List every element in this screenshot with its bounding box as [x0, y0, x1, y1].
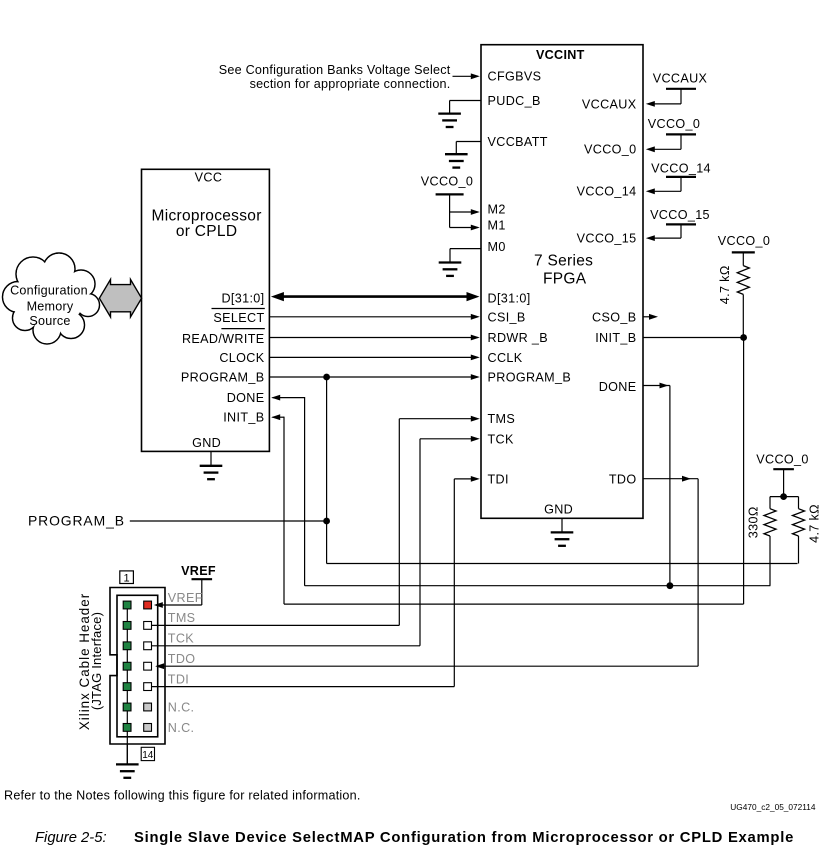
svg-text:TMS: TMS: [488, 412, 516, 426]
JTAG pin labels: [168, 591, 203, 735]
ground G-m0: [439, 263, 462, 276]
wire PROGRAM_B external: [130, 377, 327, 564]
svg-text:1: 1: [124, 572, 130, 584]
wire PROGRAM_B micro to FPGA: [269, 376, 477, 378]
svg-text:See Configuration Banks Voltag: See Configuration Banks Voltage Select: [219, 63, 451, 77]
svg-text:TDI: TDI: [168, 672, 189, 686]
svg-text:CFGBVS: CFGBVS: [488, 70, 542, 84]
FPGA left pin labels: [488, 70, 572, 487]
annotation: See Configuration Banks Voltage Select: [219, 63, 451, 91]
junction PROGRAM_B external: [323, 518, 330, 525]
svg-text:N.C.: N.C.: [168, 721, 195, 735]
overline WRITE: [221, 328, 264, 330]
svg-text:Source: Source: [29, 314, 70, 328]
svg-text:GND: GND: [544, 503, 573, 517]
svg-text:DONE: DONE: [599, 380, 637, 394]
svg-text:GND: GND: [192, 436, 221, 450]
svg-text:INIT_B: INIT_B: [595, 331, 636, 345]
svg-text:section for appropriate connec: section for appropriate connection.: [250, 77, 451, 91]
ground G-jtag: [116, 764, 139, 777]
svg-text:VCCAUX: VCCAUX: [653, 71, 708, 85]
wire PUDC_B: [450, 100, 481, 102]
svg-text:READ/WRITE: READ/WRITE: [182, 332, 265, 346]
svg-text:VCCO_0: VCCO_0: [648, 117, 701, 131]
power VCCO_14 right: [646, 161, 711, 194]
svg-text:Microprocessor: Microprocessor: [152, 207, 262, 224]
svg-text:M0: M0: [488, 240, 506, 254]
JTAG pin2 VREF (red): [144, 601, 152, 609]
junction VCCO_0 split: [780, 493, 787, 500]
wire CSO_B: [643, 316, 650, 318]
overline SELECT: [212, 308, 265, 310]
svg-text:or CPLD: or CPLD: [176, 223, 238, 240]
svg-text:PROGRAM_B: PROGRAM_B: [181, 370, 265, 384]
svg-text:VCCO_0: VCCO_0: [756, 453, 809, 467]
resistor R3 4.7k PROGRAM_B pullup: [793, 509, 805, 536]
wire PROGRAM_B pullup run: [327, 563, 798, 565]
svg-text:CLOCK: CLOCK: [219, 351, 264, 365]
svg-text:(JTAG Interface): (JTAG Interface): [89, 612, 104, 710]
svg-text:N.C.: N.C.: [168, 700, 195, 714]
svg-text:Memory: Memory: [27, 300, 74, 314]
svg-text:D[31:0]: D[31:0]: [221, 291, 264, 305]
junction PROGRAM_B: [323, 374, 330, 381]
resistor R2 330 DONE pullup: [764, 509, 776, 536]
cloud: Configuration Memory Source: [3, 253, 100, 344]
wire CLOCK to CCLK: [269, 356, 477, 358]
svg-text:TDO: TDO: [168, 652, 196, 666]
svg-text:VCCO_15: VCCO_15: [650, 208, 710, 222]
power VCCO_0 bottom right: [756, 453, 809, 497]
power VCCAUX right: [646, 71, 708, 107]
svg-text:INIT_B: INIT_B: [223, 411, 264, 425]
svg-text:4.7 kΩ: 4.7 kΩ: [718, 265, 732, 304]
svg-text:14: 14: [142, 750, 154, 761]
wire VREF to pin2: [156, 604, 202, 606]
wire R3 to PROGRAM_B: [798, 536, 800, 564]
svg-text:CCLK: CCLK: [488, 351, 523, 365]
ground at microprocessor GND: [210, 451, 212, 465]
JTAG header outer box with key notch: [110, 588, 165, 745]
power VCCO_0 top right: [718, 234, 771, 266]
svg-text:CSI_B: CSI_B: [488, 311, 526, 325]
svg-text:Refer to the Notes following t: Refer to the Notes following this figure…: [4, 789, 361, 803]
svg-text:M2: M2: [488, 202, 506, 216]
svg-text:VREF: VREF: [168, 591, 203, 605]
svg-text:VCCO_0: VCCO_0: [718, 234, 771, 248]
wire VCCBATT: [456, 141, 481, 143]
svg-text:VCCO_15: VCCO_15: [577, 232, 637, 246]
svg-text:Figure 2-5:: Figure 2-5:: [35, 830, 107, 846]
wire DONE FPGA to micro: [271, 383, 770, 586]
svg-text:VCCO_14: VCCO_14: [651, 161, 711, 175]
ground G-pudc: [438, 114, 461, 127]
svg-text:DONE: DONE: [227, 391, 265, 405]
svg-text:VCCAUX: VCCAUX: [582, 97, 637, 111]
svg-text:TDI: TDI: [488, 472, 509, 486]
svg-text:FPGA: FPGA: [543, 270, 587, 287]
FPGA U2 box: [481, 45, 643, 519]
wire R1 to INIT_B: [742, 294, 744, 337]
svg-text:7 Series: 7 Series: [534, 252, 593, 269]
wire TCK: [152, 436, 480, 646]
wire TDO: [155, 476, 698, 669]
wire TMS: [152, 416, 480, 626]
svg-text:PUDC_B: PUDC_B: [488, 94, 541, 108]
microprocessor labels: [152, 170, 262, 450]
wire M0: [450, 248, 481, 250]
ground at FPGA GND: [561, 518, 563, 532]
wire SELECT to CSI_B: [269, 316, 477, 318]
svg-text:Single Slave Device SelectMAP: Single Slave Device SelectMAP Configurat…: [134, 830, 794, 846]
svg-text:VCCO_0: VCCO_0: [584, 143, 637, 157]
wire READ/WRITE to RDWR_B: [269, 337, 477, 339]
power VCCO_0 right: [646, 117, 700, 152]
microprocessor U1 box: [142, 169, 270, 451]
power VCCO_15 right: [646, 208, 710, 241]
wire INIT_B FPGA to micro: [271, 338, 743, 605]
pin 1 index box: [120, 571, 134, 584]
svg-text:VCCINT: VCCINT: [536, 48, 585, 62]
JTAG header inner box: [117, 595, 158, 737]
svg-text:SELECT: SELECT: [213, 311, 264, 325]
wire R2 to DONE: [769, 536, 771, 586]
junction DONE: [667, 582, 674, 589]
svg-text:4.7 kΩ: 4.7 kΩ: [808, 504, 822, 543]
svg-text:UG470_c2_05_072114: UG470_c2_05_072114: [730, 802, 816, 812]
wire VCCO_0 to M2 M1: [450, 194, 480, 230]
svg-text:VCCO_0: VCCO_0: [421, 175, 474, 189]
FPGA right pin labels: [577, 97, 637, 486]
svg-text:VCCO_14: VCCO_14: [577, 185, 637, 199]
ground G-micro: [200, 466, 223, 479]
svg-text:M1: M1: [488, 218, 506, 232]
svg-text:Configuration: Configuration: [10, 284, 88, 298]
wire annotation to CFGBVS: [453, 75, 479, 77]
JTAG pins 12,14 N.C. (gray): [144, 703, 152, 731]
ground G-fpga: [551, 532, 574, 545]
svg-text:TCK: TCK: [168, 632, 194, 646]
svg-text:VCC: VCC: [195, 170, 223, 184]
wire ground rail through odd pins: [126, 605, 128, 764]
FPGA title labels: [534, 48, 593, 517]
svg-text:RDWR _B: RDWR _B: [488, 331, 549, 345]
resistor R1 4.7k INIT_B pullup: [737, 266, 749, 295]
svg-text:D[31:0]: D[31:0]: [488, 292, 531, 306]
svg-text:VCCBATT: VCCBATT: [488, 135, 548, 149]
microprocessor pin labels: [181, 291, 265, 424]
power VREF: [181, 564, 216, 605]
JTAG pins 4,6,8,10 (white): [144, 622, 152, 691]
figure caption: [35, 830, 794, 846]
pin 14 index box: [141, 747, 154, 761]
JTAG odd pins (GND, green): [123, 601, 131, 731]
svg-text:PROGRAM_B: PROGRAM_B: [488, 371, 572, 385]
svg-text:PROGRAM_B: PROGRAM_B: [28, 513, 125, 529]
svg-text:TCK: TCK: [488, 432, 514, 446]
svg-text:CSO_B: CSO_B: [592, 311, 636, 325]
svg-text:VREF: VREF: [181, 564, 216, 578]
ground below JTAG header: [126, 744, 128, 764]
svg-text:TMS: TMS: [168, 611, 196, 625]
svg-text:TDO: TDO: [609, 472, 637, 486]
junction INIT_B pullup: [740, 334, 747, 341]
ground G-vccbatt: [445, 154, 468, 167]
power VCCO_0 left: [421, 175, 474, 195]
bidirectional arrow cloud-microprocessor: [99, 279, 141, 317]
wire TDI: [152, 476, 480, 687]
wire split to R2 R3: [770, 497, 799, 509]
bus D[31:0]: [271, 292, 480, 301]
svg-text:330Ω: 330Ω: [747, 506, 761, 538]
